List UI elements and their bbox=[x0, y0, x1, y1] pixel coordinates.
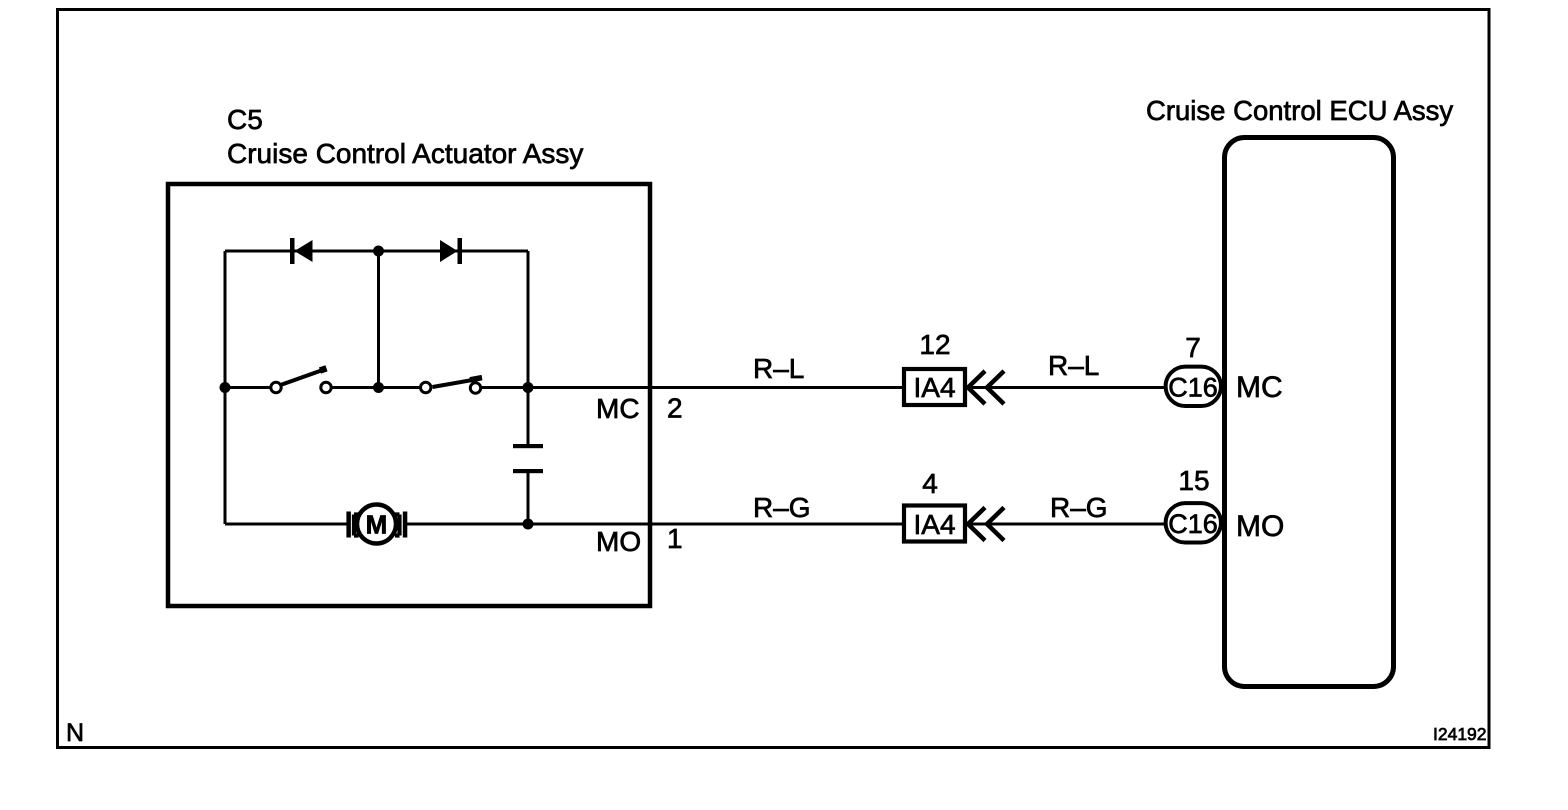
junction connector IA4 (lower) bbox=[904, 506, 965, 542]
svg-text:MC: MC bbox=[596, 393, 640, 424]
motor M bbox=[346, 505, 407, 544]
wire middle vertical bbox=[377, 251, 380, 388]
svg-text:C5: C5 bbox=[227, 104, 263, 135]
junction dot on MO row bbox=[523, 519, 534, 530]
wire right vertical upper bbox=[527, 251, 530, 388]
wire MO row left segment bbox=[225, 523, 347, 526]
wire between switch 1 and switch 2 bbox=[333, 386, 420, 389]
svg-text:C16: C16 bbox=[1168, 509, 1218, 539]
junction dot middle on top wire bbox=[373, 246, 384, 257]
connector arrows (upper, double chevron) bbox=[968, 371, 1004, 404]
actuator assy box C5 bbox=[168, 184, 650, 606]
connector arrows (lower, double chevron) bbox=[968, 508, 1004, 541]
connector C16 pin 15 bbox=[1166, 503, 1221, 542]
svg-text:M: M bbox=[366, 510, 388, 540]
svg-text:IA4: IA4 bbox=[913, 372, 955, 403]
wire MO from motor to IA4 connector bbox=[407, 523, 902, 526]
wire MO from IA4 to C16 bbox=[967, 523, 1164, 526]
connector C16 pin 7 bbox=[1166, 367, 1221, 406]
junction dot left on switch row bbox=[220, 382, 231, 393]
svg-text:R–L: R–L bbox=[753, 353, 804, 384]
svg-text:7: 7 bbox=[1185, 332, 1201, 363]
svg-text:1: 1 bbox=[667, 523, 683, 554]
svg-text:R–G: R–G bbox=[1050, 492, 1108, 523]
wire from switch row down to capacitor bbox=[527, 388, 530, 445]
svg-text:MC: MC bbox=[1236, 371, 1283, 404]
svg-text:MO: MO bbox=[596, 526, 641, 557]
svg-text:MO: MO bbox=[1236, 510, 1284, 543]
diode D1 (cathode bar left, pointing left) bbox=[290, 238, 313, 264]
wire left vertical bbox=[224, 251, 227, 524]
Cruise Control ECU box bbox=[1225, 138, 1394, 687]
svg-text:R–L: R–L bbox=[1048, 350, 1099, 381]
capacitor C bbox=[513, 444, 543, 473]
svg-text:Cruise Control Actuator Assy: Cruise Control Actuator Assy bbox=[227, 138, 583, 169]
svg-text:12: 12 bbox=[919, 329, 950, 360]
switch S2 (open contact) bbox=[421, 378, 483, 394]
svg-text:I24192: I24192 bbox=[1433, 724, 1487, 744]
svg-text:4: 4 bbox=[922, 468, 938, 499]
svg-text:IA4: IA4 bbox=[913, 509, 955, 540]
wire top horizontal bbox=[225, 250, 528, 253]
diode D2 (pointing right, cathode bar right) bbox=[440, 238, 462, 264]
wire MC row (switch row) segment dot to switch 1 bbox=[225, 386, 270, 389]
junction connector IA4 (upper) bbox=[904, 369, 965, 405]
svg-text:C16: C16 bbox=[1168, 373, 1218, 403]
svg-text:R–G: R–G bbox=[753, 492, 811, 523]
svg-text:2: 2 bbox=[667, 393, 683, 424]
switch S1 (open contact) bbox=[271, 368, 331, 392]
junction dot middle on switch row bbox=[373, 382, 384, 393]
svg-text:15: 15 bbox=[1178, 465, 1209, 496]
svg-text:N: N bbox=[66, 719, 84, 747]
svg-text:Cruise Control ECU Assy: Cruise Control ECU Assy bbox=[1146, 95, 1453, 126]
wire from capacitor down to MO row bbox=[527, 473, 530, 524]
wire MC from switch 2 to IA4 connector bbox=[482, 386, 902, 389]
wire MC from IA4 to C16 bbox=[967, 386, 1164, 389]
junction dot right on switch row bbox=[523, 382, 534, 393]
